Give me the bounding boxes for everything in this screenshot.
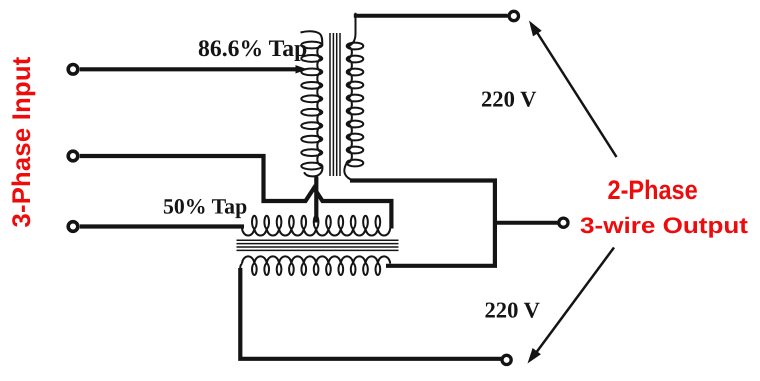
T1 primary winding leads: [301, 31, 323, 176]
wire: teaser secondary bottom + main secondary right end to common point: [350, 181, 495, 266]
transformer T2 secondary winding: [240, 256, 390, 275]
output terminal common (middle): [559, 218, 568, 227]
transformer T1 core: [330, 33, 340, 176]
transformer T2 (main) primary winding: [242, 216, 390, 236]
wire: line B to main primary right end (with hop over tap wire): [80, 156, 392, 229]
transformer T1 secondary winding: [347, 43, 364, 167]
arrow to output terminal 2: [536, 248, 615, 354]
svg-text:3-Phase Input: 3-Phase Input: [8, 56, 36, 227]
terminal A (3-phase input line 1): [68, 65, 78, 75]
arrowhead at 86.6% tap point: [296, 65, 308, 73]
T1 secondary winding leads: [344, 13, 355, 181]
arrow to output terminal 1: [536, 30, 617, 157]
wire: main secondary left end down and across to output terminal 2: [240, 268, 501, 359]
svg-text:220 V: 220 V: [481, 86, 537, 111]
svg-text:2-Phase: 2-Phase: [608, 175, 698, 205]
transformer T2 core: [237, 240, 399, 250]
wire: teaser primary bottom to 50% tap of main primary: [314, 177, 318, 223]
transformer T1 (teaser) primary winding: [301, 42, 322, 170]
svg-text:220 V: 220 V: [485, 298, 541, 323]
output terminal 2 (bottom): [502, 355, 511, 364]
output terminal 1 (top): [509, 11, 518, 20]
wire: line A to 86.6% tap: [80, 67, 297, 71]
terminal B (3-phase input line 2): [68, 151, 78, 161]
wire: common point to middle output terminal: [495, 221, 558, 225]
svg-text:3-wire Output: 3-wire Output: [580, 213, 749, 238]
svg-text:50% Tap: 50% Tap: [163, 195, 247, 219]
wire: teaser secondary top to output terminal 1: [354, 14, 508, 18]
terminal C (3-phase input line 3): [68, 222, 78, 232]
wire: line C to main primary left end: [80, 224, 244, 228]
svg-text:86.6% Tap: 86.6% Tap: [198, 36, 307, 62]
